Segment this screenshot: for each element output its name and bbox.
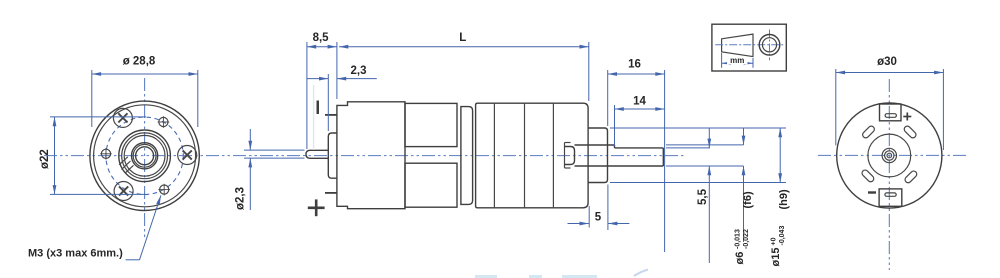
- rear hub ring 2: [885, 151, 894, 160]
- svg-text:-0,043: -0,043: [779, 226, 786, 246]
- rear view vertical centerline: [888, 79, 890, 270]
- mm dimension: [722, 53, 753, 68]
- symbol centerline: [715, 44, 784, 46]
- hatch marks: [119, 157, 133, 173]
- dimension L: [339, 32, 589, 101]
- terminal box bottom: [879, 189, 902, 206]
- output shaft: [575, 145, 664, 166]
- svg-text:5,5: 5,5: [697, 188, 709, 205]
- dimension 5,5 (flat height): [666, 128, 710, 263]
- gearbox housing: [476, 103, 588, 208]
- output bearing flange: [565, 143, 571, 169]
- output bushing: [565, 147, 575, 165]
- leader to M3 hole: [126, 195, 161, 259]
- front view vertical centerline: [144, 78, 146, 240]
- front boss ø15: [588, 128, 607, 183]
- screw S1 (right): [178, 146, 197, 165]
- dimension 8,5: [307, 32, 337, 149]
- motor can upper half: [405, 103, 457, 146]
- rear shaft center: [887, 153, 892, 158]
- center boss ring 1: [119, 130, 171, 182]
- gearbox section line 2: [524, 103, 526, 208]
- rear view outer circle: [837, 103, 942, 208]
- plus mark: [903, 113, 911, 121]
- faint swirl: [634, 270, 648, 277]
- svg-text:-0,013: -0,013: [734, 229, 741, 249]
- screw S3 (lower left): [114, 182, 133, 201]
- symbol box frame: [712, 24, 786, 71]
- plus terminal mark: [308, 199, 325, 216]
- svg-text:14: 14: [633, 96, 646, 108]
- minus terminal mark: [317, 101, 320, 115]
- dimension 5 (boss length): [568, 185, 630, 231]
- center boss ring 2: [122, 133, 168, 179]
- vent slot SE: [904, 170, 918, 184]
- vent slot NW: [861, 125, 875, 139]
- terminal pin top: [325, 114, 337, 116]
- svg-text:(h9): (h9): [778, 189, 790, 210]
- front view inner rim circle: [94, 105, 196, 207]
- dimension ø22: [39, 117, 146, 194]
- svg-text:(f6): (f6): [742, 191, 754, 208]
- minus mark: [868, 191, 876, 193]
- svg-text:L: L: [459, 32, 466, 44]
- dimension ø6 f6: [666, 128, 754, 265]
- svg-text:ø2,3: ø2,3: [235, 187, 247, 210]
- rear shaft: [306, 150, 328, 158]
- vent slot SW: [861, 169, 875, 183]
- front view outer circle: [90, 101, 199, 210]
- svg-text:ø 28,8: ø 28,8: [123, 56, 156, 68]
- motor end cap body: [337, 102, 405, 209]
- bolt circle ø22 (dashed): [106, 117, 183, 194]
- svg-text:-0,022: -0,022: [743, 229, 750, 249]
- dimension ø2,3 (rear shaft): [235, 129, 305, 210]
- symbol circle inner: [762, 38, 776, 52]
- svg-text:8,5: 8,5: [313, 32, 330, 44]
- dimension 2,3 (brush cap): [307, 65, 377, 131]
- mounting hole H3 (lower right): [158, 184, 170, 196]
- rear brush cap: [328, 133, 337, 178]
- shaft hole: [136, 147, 154, 165]
- rear view horizontal centerline: [818, 154, 968, 156]
- front view horizontal centerline: [44, 155, 686, 157]
- hub ring 2: [133, 144, 156, 167]
- svg-text:mm: mm: [730, 56, 744, 65]
- svg-text:ø6: ø6: [734, 252, 746, 265]
- dimension ø15 h9: [610, 128, 790, 267]
- dimension ø28,8: [92, 56, 198, 128]
- svg-text:M3 (x3 max 6mm.): M3 (x3 max 6mm.): [28, 248, 123, 260]
- dimension 16: [608, 59, 665, 253]
- svg-text:ø15: ø15: [770, 248, 782, 267]
- watermark remnants: [475, 275, 597, 278]
- frustum: [722, 34, 753, 57]
- svg-text:ø22: ø22: [39, 149, 51, 169]
- svg-text:2,3: 2,3: [351, 65, 367, 77]
- terminal slot top: [885, 114, 896, 118]
- dimension 14: [615, 96, 665, 147]
- faint scan line: [313, 85, 315, 150]
- gearbox section line 3: [552, 103, 554, 208]
- collar ring: [461, 107, 473, 205]
- terminal box top: [880, 104, 902, 121]
- svg-text:+0: +0: [770, 237, 777, 245]
- hub ring 1: [132, 143, 158, 169]
- terminal slot bottom: [885, 193, 896, 196]
- svg-text:16: 16: [628, 59, 641, 71]
- dimension ø30: [836, 56, 944, 150]
- screw S2 (upper left): [113, 108, 132, 127]
- rear hub ring 1: [882, 148, 896, 162]
- motor can lower half: [405, 163, 457, 207]
- gearbox section line 1: [493, 103, 495, 208]
- mounting hole H1 (upper right): [158, 116, 170, 128]
- center boss ring 3: [124, 135, 165, 176]
- mounting hole H2 (left): [100, 148, 112, 160]
- terminal pin bottom: [325, 192, 337, 194]
- symbol circle crosshair: [769, 30, 771, 61]
- rear middle circle: [868, 134, 911, 177]
- symbol circle outer: [759, 35, 780, 56]
- svg-text:5: 5: [595, 212, 602, 224]
- svg-text:ø30: ø30: [877, 56, 897, 68]
- vent slot NE: [903, 125, 917, 139]
